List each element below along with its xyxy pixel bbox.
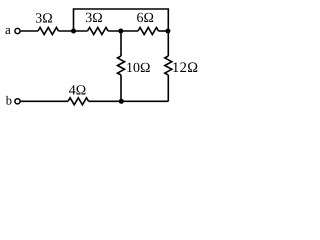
resistor R4 10ohm (vertical) xyxy=(118,56,125,75)
wire bypass loop node A up over to node C xyxy=(74,9,169,31)
wire R5 to bottom right corner xyxy=(167,75,169,101)
wire R6 to node D and bottom right corner xyxy=(89,100,169,102)
wire R2 to node B xyxy=(108,30,138,32)
resistor R5 12ohm (vertical) xyxy=(165,56,172,75)
svg-text:6Ω: 6Ω xyxy=(137,11,154,26)
svg-text:a: a xyxy=(5,22,11,37)
svg-text:10Ω: 10Ω xyxy=(126,61,150,76)
svg-text:3Ω: 3Ω xyxy=(85,11,102,26)
node C junction dot xyxy=(165,29,170,34)
wire node C down to R5 xyxy=(167,31,169,56)
terminal b open circle xyxy=(15,99,20,104)
resistor R2 3ohm (middle) xyxy=(88,28,109,35)
resistor R1 3ohm (left) xyxy=(38,28,59,35)
svg-text:b: b xyxy=(6,94,12,108)
wire a-terminal to R1 xyxy=(21,30,38,32)
resistor R6 4ohm xyxy=(68,98,89,105)
terminal a open circle xyxy=(15,28,20,33)
wire R3 to node C xyxy=(159,30,169,32)
wire R1 to node A xyxy=(59,30,88,32)
svg-text:4Ω: 4Ω xyxy=(69,84,86,99)
node A junction dot xyxy=(71,29,76,34)
svg-text:12Ω: 12Ω xyxy=(172,60,198,76)
wire node B down to R4 xyxy=(120,31,122,56)
resistor R3 6ohm xyxy=(138,28,159,35)
node B junction dot xyxy=(118,29,123,34)
wire R4 to bottom node D xyxy=(120,75,122,101)
node D junction dot xyxy=(119,99,124,104)
svg-text:3Ω: 3Ω xyxy=(35,12,52,27)
wire b-terminal to R6 xyxy=(21,100,68,102)
